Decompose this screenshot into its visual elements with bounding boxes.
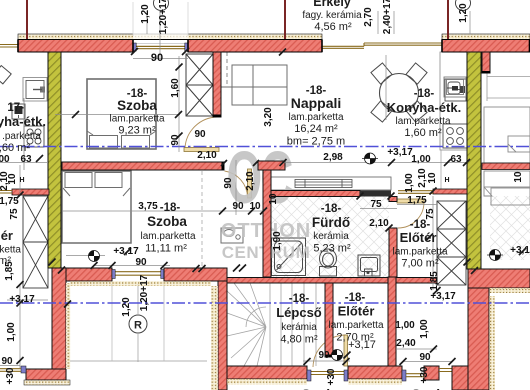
apt17 chair diamond	[0, 66, 11, 84]
svg-text:1,20: 1,20	[140, 4, 151, 24]
room label lépcsö	[276, 293, 322, 346]
right apartment corridor lines	[487, 52, 530, 101]
svg-text:+3,17: +3,17	[348, 339, 376, 351]
bottom wall segment B	[348, 366, 402, 379]
room label konyha	[387, 88, 461, 139]
right apartment bathroom tile floor	[490, 196, 530, 260]
svg-text:kerámia: kerámia	[313, 231, 349, 242]
szoba1 east wall	[213, 52, 221, 117]
svg-text:Szoba: Szoba	[147, 214, 187, 229]
entry threshold	[311, 372, 344, 375]
right corner insulation below	[472, 288, 530, 293]
eloter7 shaft X-boxes	[437, 201, 466, 285]
right leg insulation	[489, 296, 495, 390]
svg-text:1,20+17: 1,20+17	[139, 274, 150, 311]
apt17 sink	[12, 104, 25, 119]
svg-text:5,23 m²: 5,23 m²	[313, 243, 351, 255]
kitchen sink	[445, 79, 466, 101]
svg-text:+3,17: +3,17	[9, 294, 35, 305]
svg-text:1,00: 1,00	[6, 322, 17, 342]
svg-text:+3,17: +3,17	[387, 147, 413, 158]
svg-text:75: 75	[425, 208, 436, 220]
bathroom toilet	[320, 249, 337, 276]
bathroom washbasin	[358, 255, 380, 276]
dim line left apt 63	[0, 162, 48, 164]
svg-text:+3,17: +3,17	[430, 291, 456, 302]
svg-text:Előtér: Előtér	[400, 230, 437, 245]
svg-text:+30: +30	[5, 367, 16, 384]
apartment 17 window sill at left edge	[0, 45, 18, 48]
bottom wall segment D	[452, 366, 468, 390]
svg-text:90: 90	[223, 177, 234, 189]
north wall insulation band left	[18, 34, 322, 40]
svg-text:00: 00	[0, 154, 10, 165]
eloter partition wall lower	[388, 277, 396, 367]
stairwell west leg insulation	[211, 286, 218, 390]
room label apt17 eloter	[0, 228, 21, 267]
svg-text:kerámia: kerámia	[281, 322, 317, 333]
svg-text:10: 10	[7, 173, 18, 185]
svg-text:Erkély: Erkély	[313, 0, 351, 9]
svg-text:10: 10	[427, 172, 438, 184]
svg-text:-18-: -18-	[289, 293, 310, 305]
svg-text:fagy. kerámia: fagy. kerámia	[302, 10, 362, 21]
north wall insulation band right	[442, 34, 530, 40]
bathroom east wall upper jamb	[389, 197, 397, 202]
svg-text:90: 90	[194, 129, 206, 140]
svg-text:1,85: 1,85	[4, 261, 15, 281]
eloter7 south thin wall	[396, 278, 437, 284]
stairwell west leg	[218, 281, 227, 390]
svg-text:11,11 m²: 11,11 m²	[145, 243, 187, 255]
svg-text:10: 10	[513, 171, 524, 183]
svg-text:90: 90	[318, 350, 330, 361]
svg-text:2,70: 2,70	[363, 7, 374, 27]
right apartment partition wall	[482, 163, 530, 170]
svg-text:lam.parketta: lam.parketta	[328, 320, 383, 331]
svg-text:16,24 m²: 16,24 m²	[294, 123, 338, 135]
svg-text:3,75: 3,75	[138, 201, 158, 212]
svg-text:75: 75	[370, 199, 382, 210]
right apartment north wall below top	[482, 52, 490, 73]
svg-text:1,20+17: 1,20+17	[158, 0, 169, 34]
left window jamb block	[21, 366, 26, 373]
right apartment corner wall horizontal	[468, 269, 530, 288]
bottom wall segment C	[424, 366, 439, 380]
svg-text:4,80 m²: 4,80 m²	[280, 334, 318, 346]
svg-text:2,10: 2,10	[245, 171, 256, 191]
kitchen stove	[443, 124, 467, 148]
dim line top window 90	[133, 58, 188, 60]
svg-text:lam.parketta: lam.parketta	[392, 247, 447, 258]
svg-text:+3,1: +3,1	[510, 245, 530, 256]
szoba1 door leaf	[184, 148, 219, 152]
svg-text:17-: 17-	[7, 102, 24, 114]
svg-text:lam.parketta: lam.parketta	[140, 231, 195, 242]
stair-eloter divider wall	[325, 283, 333, 357]
south wall left leg foot	[26, 369, 66, 380]
svg-text:bm= 2,75 m: bm= 2,75 m	[287, 136, 345, 148]
szoba1 pillows	[90, 136, 118, 149]
svg-text:1,60 m²: 1,60 m²	[404, 127, 442, 139]
cut-off labels of lower floor	[301, 386, 452, 390]
apt17 stove	[24, 126, 44, 147]
bathroom tile floor	[271, 196, 389, 277]
dim line szoba1 vertical	[178, 56, 180, 152]
svg-text:+30: +30	[419, 366, 430, 383]
svg-text:Nappali: Nappali	[291, 95, 342, 111]
svg-text:lam.parketta: lam.parketta	[395, 116, 450, 127]
survey point nappali	[362, 153, 378, 164]
dining table round	[380, 74, 419, 113]
svg-text:H: H	[19, 177, 24, 184]
szoba2 door leaf	[248, 169, 252, 198]
svg-text:2,40+17: 2,40+17	[382, 0, 393, 34]
left edge window sill bottom	[0, 369, 21, 372]
left leg inner insulation	[66, 283, 71, 369]
wall caps north	[18, 40, 530, 53]
right apartment top line	[483, 107, 485, 163]
szoba1 bed	[87, 79, 156, 149]
svg-text:10: 10	[249, 201, 261, 212]
pillar column left (yellow hatched)	[48, 52, 61, 268]
szoba1 south wall	[62, 162, 224, 170]
svg-text:2,40: 2,40	[396, 338, 416, 349]
window W1 jambs	[133, 43, 136, 51]
watermark	[221, 137, 311, 262]
svg-text:63: 63	[20, 154, 32, 165]
nappali sofa	[271, 177, 391, 190]
dim line left apt vertical	[19, 165, 21, 195]
north wall segment C	[442, 40, 530, 53]
balcony side wall line right	[447, 0, 449, 39]
dim line eloter7 vertical	[432, 196, 434, 290]
szoba2 pillows	[65, 173, 92, 188]
dining chairs	[371, 63, 427, 122]
svg-text:90: 90	[135, 257, 147, 268]
right apartment wall vertical leg	[468, 288, 489, 390]
svg-text:Fürdő: Fürdő	[312, 215, 350, 230]
apt17 shaft X-boxes	[23, 196, 48, 288]
bottom window sill C	[439, 369, 452, 372]
svg-text:90: 90	[1, 356, 13, 367]
svg-text:,60 m²: ,60 m²	[0, 142, 30, 154]
svg-text:2,98: 2,98	[323, 152, 343, 163]
svg-text:yha-étk.: yha-étk.	[0, 114, 46, 129]
svg-text:90: 90	[170, 134, 181, 146]
room label apt17	[0, 102, 46, 154]
svg-text:Előtér: Előtér	[338, 304, 375, 319]
room label fürdö	[312, 203, 351, 255]
svg-text:ér: ér	[1, 228, 13, 243]
szoba1 door arc	[185, 117, 218, 148]
svg-text:+3,17: +3,17	[113, 246, 139, 257]
hall dashed line	[226, 52, 228, 87]
svg-text:3,20: 3,20	[263, 107, 274, 127]
kitchen floor edge line	[440, 150, 442, 189]
dim ticks	[17, 48, 527, 365]
window W1 head line	[133, 43, 188, 45]
survey point right apt	[487, 250, 503, 261]
dim line bottom 90 entry	[303, 360, 350, 362]
svg-text:-18-: -18-	[414, 88, 435, 100]
dim line 1,75 window	[397, 204, 437, 206]
svg-text:+30: +30	[326, 368, 337, 385]
svg-text:-18-: -18-	[345, 292, 366, 304]
hall wall stub	[258, 161, 285, 170]
blue section line upper	[0, 146, 530, 148]
bathroom bathtub	[272, 238, 306, 276]
left apartment partition sill	[0, 191, 12, 194]
svg-text:90: 90	[419, 352, 431, 363]
room label erkely	[302, 0, 362, 33]
dim line szoba2 3,75	[62, 210, 214, 212]
room label szoba2	[140, 202, 195, 255]
svg-text:lam.parketta: lam.parketta	[109, 114, 164, 125]
dim line nappali 2,98	[283, 162, 392, 164]
dim line left +317	[66, 255, 105, 257]
hall wardrobe	[232, 65, 287, 105]
reference circle R top left	[154, 0, 169, 11]
south wall west segment	[66, 268, 112, 281]
kitchen counter	[440, 52, 467, 150]
bathroom east wall	[389, 228, 397, 277]
north wall segment A	[18, 40, 133, 53]
svg-text:1,00: 1,00	[419, 319, 430, 339]
survey point szoba2	[89, 251, 100, 262]
nappali table striped	[295, 180, 352, 188]
dim line hall vertical	[235, 160, 237, 215]
svg-text:2,10: 2,10	[369, 218, 389, 229]
svg-text:9,23 m²: 9,23 m²	[118, 125, 156, 137]
szoba2 projection dashed line	[201, 171, 203, 268]
apt17 counter edge	[23, 98, 25, 170]
bathroom south thin wall	[226, 278, 388, 284]
svg-text:lam.parketta: lam.parketta	[288, 112, 343, 123]
dim line hall 90-10	[214, 210, 264, 212]
dim line stairs 90 bottom left	[0, 365, 20, 367]
dim line south window 90	[94, 265, 170, 267]
svg-text:10: 10	[268, 193, 279, 205]
bathroom door arc	[398, 203, 424, 228]
svg-text:7,00 m²: 7,00 m²	[401, 258, 439, 270]
south window sill	[114, 272, 162, 276]
eloter7 north window sill (1,75)	[398, 191, 433, 194]
reference circle R top right	[456, 0, 471, 11]
svg-text:Szoba: Szoba	[301, 386, 342, 390]
south wall left leg	[52, 268, 66, 371]
svg-text:1,20: 1,20	[121, 297, 132, 317]
dim line right 2,40	[397, 348, 437, 350]
svg-text:R: R	[134, 320, 142, 332]
bottom wall segment A	[227, 366, 307, 379]
left leg foot insulation	[24, 380, 70, 385]
bathroom north wall	[271, 191, 360, 197]
dim line fürdö 75	[360, 208, 397, 210]
entry door arc	[313, 335, 346, 367]
window projection lines	[112, 284, 164, 361]
svg-text:1,00: 1,00	[404, 173, 415, 193]
room label eloter7	[392, 219, 447, 270]
bottom window sill B	[406, 374, 424, 377]
dim line kitchen 1,00 63	[392, 162, 467, 164]
svg-text:1,90: 1,90	[272, 231, 283, 251]
svg-text:Konyha-étk.: Konyha-étk.	[387, 100, 461, 115]
dim line szoba1 horizontal	[55, 114, 180, 116]
blue section line lower	[0, 302, 530, 304]
hall washing machine	[221, 228, 243, 243]
window W1 band lightener	[133, 34, 188, 41]
dim extension verticals	[147, 11, 470, 120]
dim line left bottom	[7, 284, 48, 368]
pillar column right (yellow hatched)	[467, 52, 481, 269]
survey point eloter2	[332, 350, 343, 361]
svg-text:1,60: 1,60	[170, 78, 181, 98]
right apartment furniture	[484, 107, 530, 205]
svg-text:63: 63	[450, 154, 462, 165]
bathroom door leaf	[397, 199, 424, 203]
dim line bottom right 90	[403, 361, 452, 363]
svg-text:ketta: ketta	[0, 245, 21, 256]
entry door leaf	[344, 335, 348, 366]
south window jambs	[112, 270, 115, 279]
window W1 sill lines	[136, 46, 185, 48]
svg-text:Szoba: Szoba	[117, 98, 157, 113]
svg-text:1,00: 1,00	[411, 154, 431, 165]
window W1 projection lines	[133, 2, 188, 36]
stair treads fan	[227, 283, 316, 366]
svg-text:-18-: -18-	[321, 203, 342, 215]
room label szoba1	[109, 88, 164, 137]
kitchen pass lintel	[360, 191, 391, 197]
room label nappali	[287, 85, 345, 148]
terrace edge line	[70, 360, 207, 362]
apt17 entry door	[23, 78, 47, 102]
svg-text:1,20: 1,20	[458, 3, 469, 23]
south wall east segment	[164, 268, 227, 281]
svg-text:H: H	[444, 177, 449, 184]
entry door jambs blue	[307, 370, 311, 381]
hall-bathroom west wall	[263, 170, 271, 277]
svg-text:1,00: 1,00	[395, 320, 415, 331]
svg-text:.parketta: .parketta	[2, 131, 41, 142]
svg-text:2,10: 2,10	[197, 150, 217, 161]
svg-text:90: 90	[232, 201, 244, 212]
right apartment door	[444, 77, 466, 97]
balcony side wall line left	[26, 0, 28, 39]
kitchen south thin wall	[433, 189, 467, 194]
svg-text:1,75: 1,75	[0, 196, 19, 207]
reference circle R bottom	[129, 315, 147, 333]
bottom window jamb blue	[402, 370, 406, 381]
szoba2 door arc	[225, 171, 248, 197]
bottom wall insulation A	[227, 379, 307, 385]
svg-text:90: 90	[151, 52, 163, 64]
svg-text:4,56 m²: 4,56 m²	[314, 21, 352, 33]
svg-text:Lépcső: Lépcső	[276, 305, 322, 320]
szoba2 bed	[62, 171, 131, 243]
svg-text:-18-: -18-	[160, 202, 181, 214]
left apartment partition wall	[12, 189, 49, 195]
svg-text:1,75: 1,75	[407, 195, 427, 206]
south wall inner insulation	[70, 281, 211, 286]
svg-text:1,85: 1,85	[429, 271, 440, 291]
svg-text:75: 75	[9, 208, 20, 220]
room label eloter2	[328, 292, 383, 351]
balcony sliding door sill	[322, 43, 442, 48]
balcony side wall line middle	[284, 0, 286, 39]
window W1 void	[133, 40, 188, 53]
north wall segment B	[188, 40, 322, 53]
szoba1 closet X-boxes	[186, 54, 213, 116]
svg-text:Szoba: Szoba	[411, 386, 452, 390]
